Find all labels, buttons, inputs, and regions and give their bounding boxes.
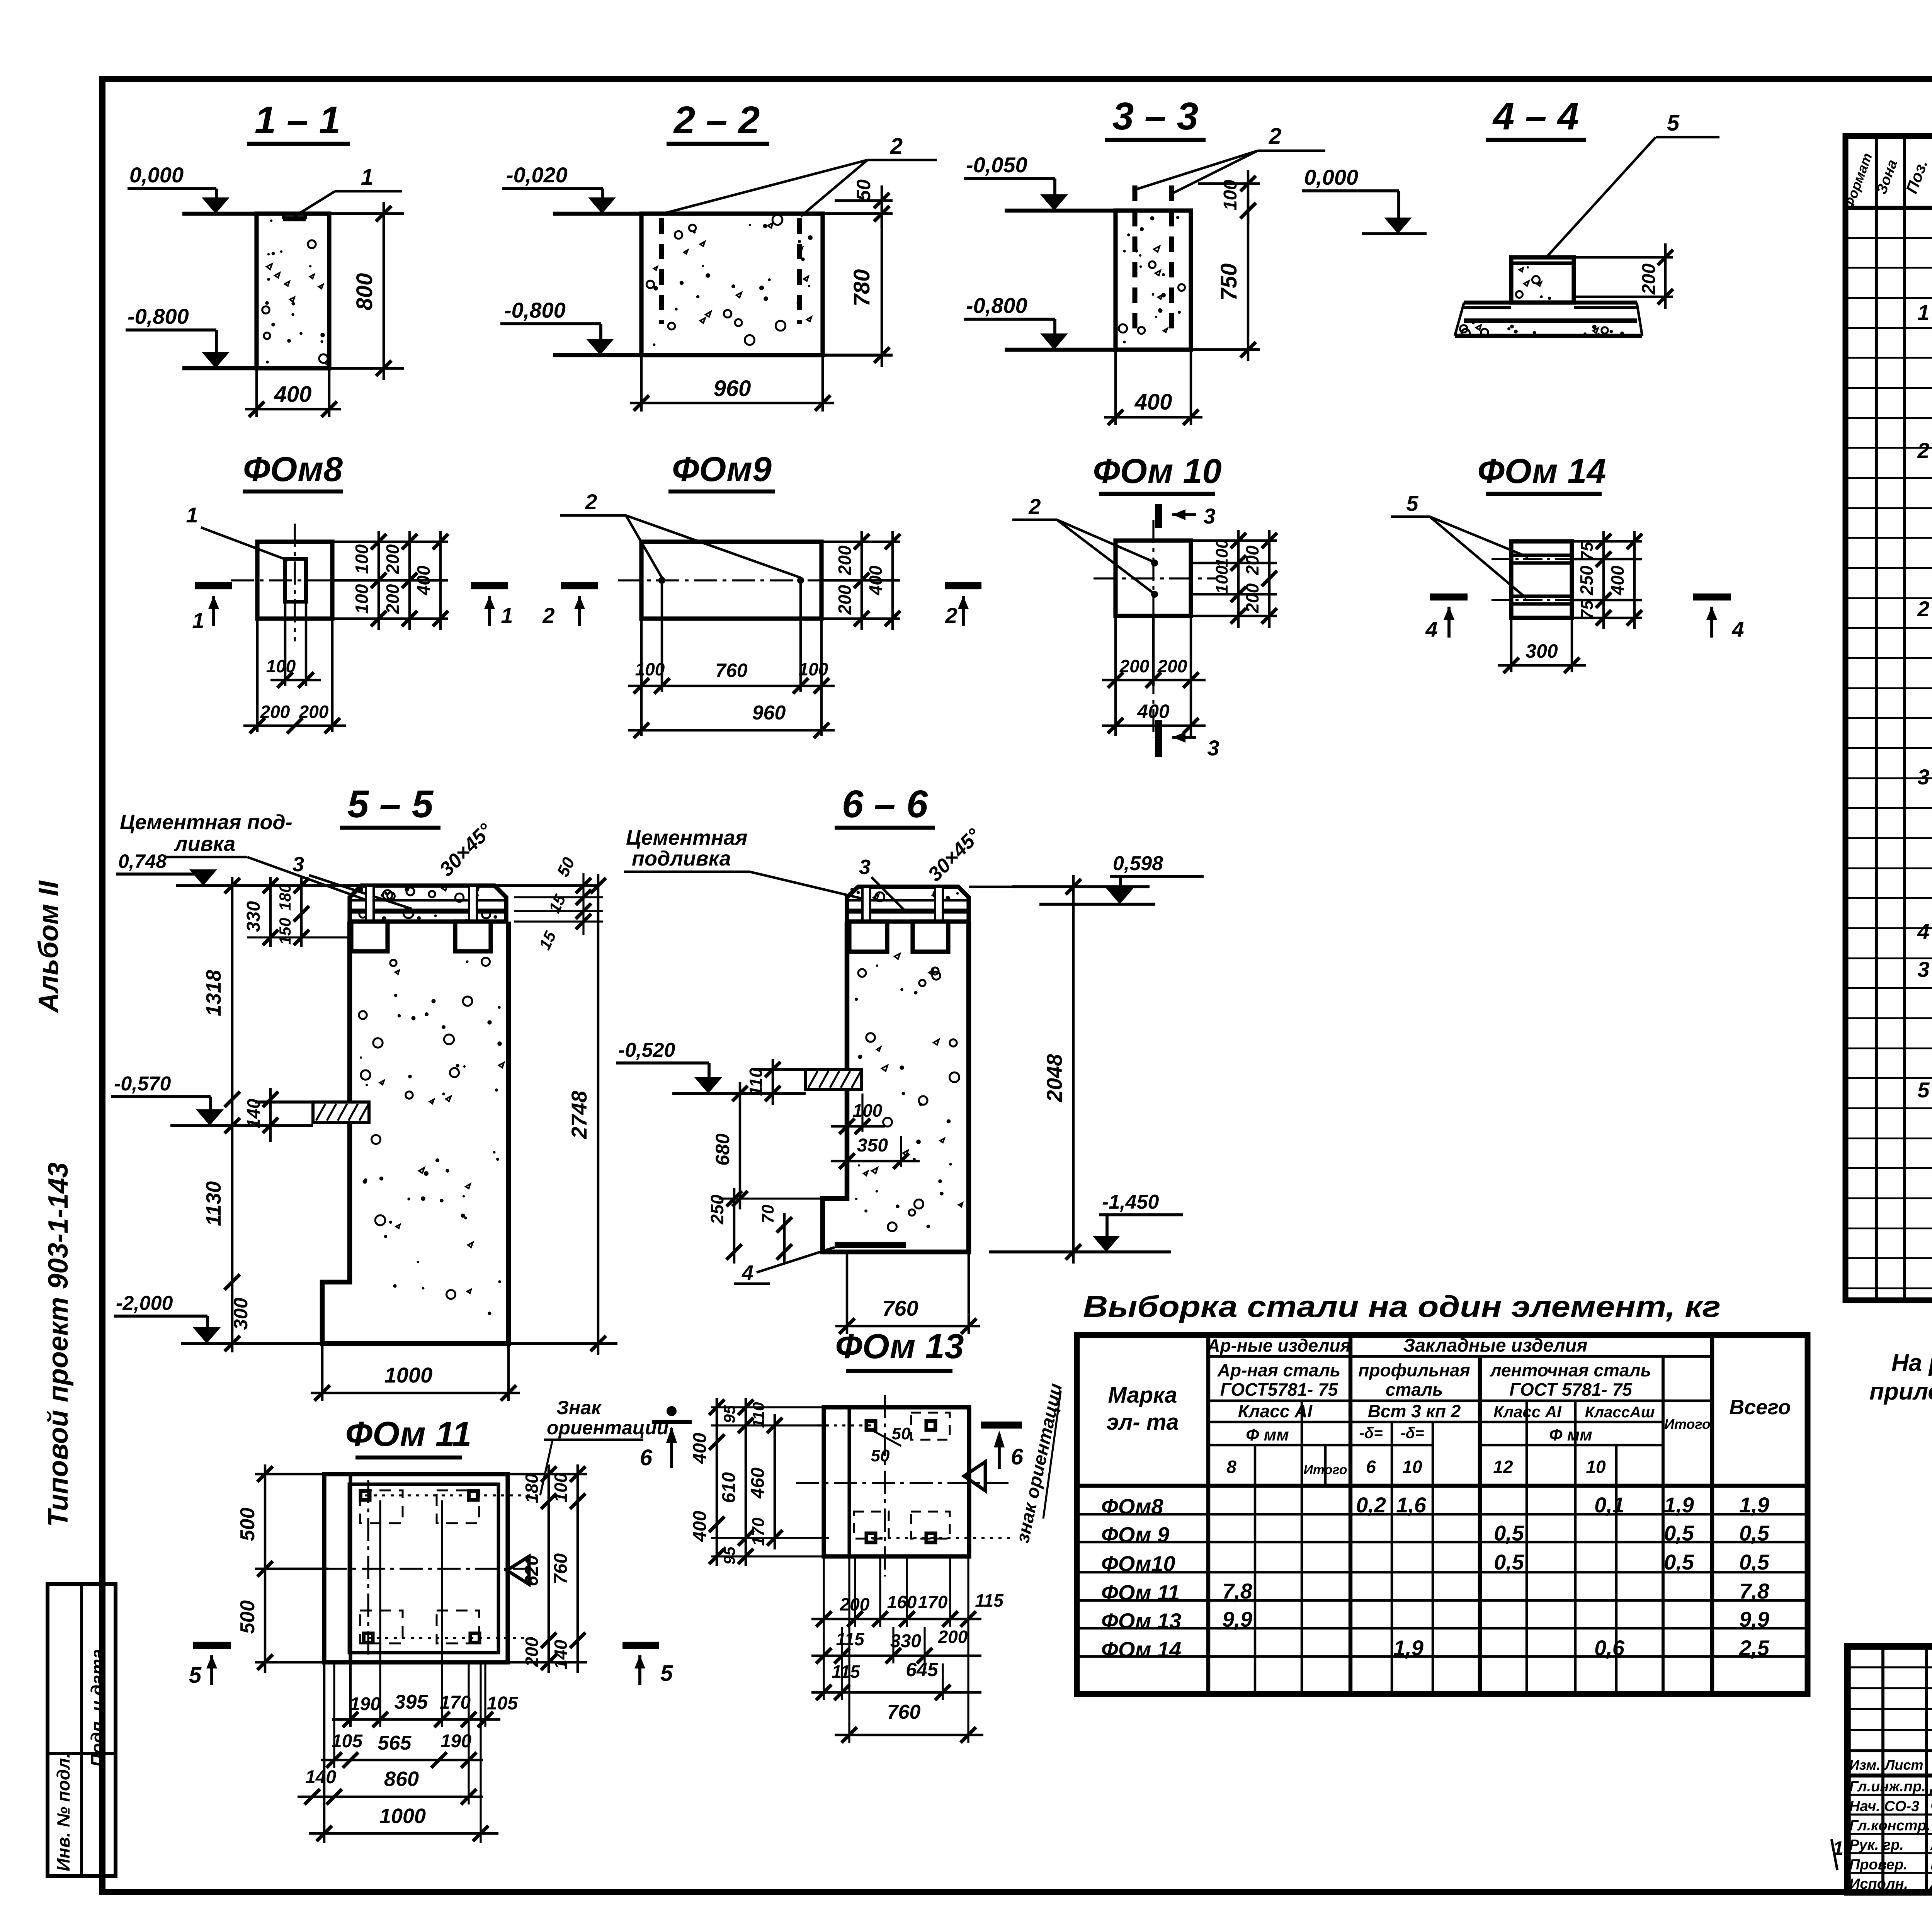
svg-text:9,9: 9,9 xyxy=(1222,1607,1252,1631)
svg-text:150: 150 xyxy=(276,918,294,945)
svg-text:1 – 1: 1 – 1 xyxy=(255,99,340,142)
svg-text:0,5: 0,5 xyxy=(1739,1550,1770,1574)
svg-text:Рук. гр.: Рук. гр. xyxy=(1849,1837,1904,1853)
svg-text:565: 565 xyxy=(378,1732,412,1754)
svg-text:Цементная под-: Цементная под- xyxy=(120,811,293,834)
svg-text:1,9: 1,9 xyxy=(1739,1493,1769,1517)
svg-text:100: 100 xyxy=(352,584,372,614)
svg-text:На разрезах 5-5 и 6-6 показаны: На разрезах 5-5 и 6-6 показаны плиты пер… xyxy=(1891,1350,1932,1376)
svg-text:5: 5 xyxy=(1667,111,1680,136)
svg-text:профильная: профильная xyxy=(1358,1360,1470,1380)
svg-text:-δ=: -δ= xyxy=(1359,1425,1383,1442)
svg-text:Знак: Знак xyxy=(556,1397,602,1418)
svg-text:0,1: 0,1 xyxy=(1594,1493,1624,1517)
svg-text:ГОСТ 5781- 75: ГОСТ 5781- 75 xyxy=(1509,1379,1633,1400)
svg-text:0,2: 0,2 xyxy=(1356,1493,1386,1517)
svg-text:ФОм 14: ФОм 14 xyxy=(1101,1637,1181,1662)
svg-text:200: 200 xyxy=(260,702,290,722)
svg-text:760: 760 xyxy=(715,660,748,681)
svg-text:760: 760 xyxy=(551,1553,571,1584)
svg-text:0,000: 0,000 xyxy=(129,163,184,187)
svg-text:115: 115 xyxy=(975,1590,1004,1611)
svg-text:100: 100 xyxy=(1213,539,1231,568)
svg-text:КлассАш: КлассАш xyxy=(1585,1404,1655,1421)
svg-text:610: 610 xyxy=(719,1472,739,1503)
svg-text:330: 330 xyxy=(243,901,264,932)
svg-text:140: 140 xyxy=(305,1767,336,1787)
svg-text:2: 2 xyxy=(585,490,597,514)
svg-text:800: 800 xyxy=(352,273,377,311)
svg-text:400: 400 xyxy=(1134,389,1172,415)
svg-text:7,8: 7,8 xyxy=(1739,1579,1770,1603)
svg-text:2748: 2748 xyxy=(567,1090,591,1139)
svg-text:300: 300 xyxy=(1526,640,1558,662)
svg-text:3: 3 xyxy=(1207,736,1219,760)
svg-text:Нач. СО-3: Нач. СО-3 xyxy=(1849,1798,1919,1815)
svg-text:-0,050: -0,050 xyxy=(966,153,1027,177)
svg-text:400: 400 xyxy=(866,565,886,595)
svg-text:780: 780 xyxy=(849,269,874,307)
svg-text:110: 110 xyxy=(746,1068,766,1096)
svg-text:180: 180 xyxy=(276,884,294,911)
svg-text:1000: 1000 xyxy=(379,1804,426,1828)
svg-text:Альбом II: Альбом II xyxy=(33,880,64,1013)
svg-text:1000: 1000 xyxy=(384,1363,433,1387)
svg-text:эл- та: эл- та xyxy=(1106,1410,1179,1435)
svg-text:4 – 4: 4 – 4 xyxy=(1492,95,1579,138)
svg-text:500: 500 xyxy=(236,1600,259,1634)
svg-text:ФОм 14: ФОм 14 xyxy=(1477,452,1606,491)
svg-text:50: 50 xyxy=(853,179,874,201)
svg-text:200: 200 xyxy=(299,702,329,722)
svg-text:0,5: 0,5 xyxy=(1664,1550,1694,1574)
svg-text:Изм.: Изм. xyxy=(1849,1757,1880,1773)
svg-text:-2,000: -2,000 xyxy=(116,1292,173,1315)
svg-text:Всего: Всего xyxy=(1729,1396,1791,1419)
svg-text:4: 4 xyxy=(742,1261,753,1284)
svg-text:860: 860 xyxy=(384,1767,419,1791)
svg-text:170: 170 xyxy=(749,1517,768,1546)
svg-text:170: 170 xyxy=(918,1592,948,1612)
svg-text:1: 1 xyxy=(192,608,204,633)
svg-text:-δ=: -δ= xyxy=(1400,1425,1424,1442)
svg-text:4: 4 xyxy=(1425,617,1437,641)
svg-text:ФОм8: ФОм8 xyxy=(243,450,343,489)
svg-text:5: 5 xyxy=(660,1661,673,1686)
svg-text:760: 760 xyxy=(887,1701,921,1723)
svg-text:95: 95 xyxy=(720,1546,738,1565)
svg-text:330: 330 xyxy=(890,1631,921,1651)
svg-text:100: 100 xyxy=(551,1473,571,1502)
svg-text:75: 75 xyxy=(1578,542,1597,561)
svg-text:Трейс: Трейс xyxy=(1930,1814,1932,1834)
svg-text:95: 95 xyxy=(720,1405,738,1423)
svg-text:-0,020: -0,020 xyxy=(506,163,568,187)
svg-text:прилегающих подпольных канал: прилегающих подпольных каналов. xyxy=(1869,1378,1932,1405)
svg-text:10: 10 xyxy=(1586,1457,1606,1477)
svg-text:1: 1 xyxy=(501,603,513,628)
svg-text:200: 200 xyxy=(938,1627,968,1647)
svg-text:190: 190 xyxy=(350,1694,381,1714)
svg-text:70: 70 xyxy=(759,1204,777,1223)
svg-text:3: 3 xyxy=(293,853,304,876)
svg-text:1: 1 xyxy=(1917,300,1929,325)
svg-text:100: 100 xyxy=(352,544,372,574)
svg-text:Цементная: Цементная xyxy=(626,826,747,849)
svg-text:0,5: 0,5 xyxy=(1739,1521,1770,1545)
svg-text:ФОм 9: ФОм 9 xyxy=(1101,1522,1169,1547)
svg-text:4: 4 xyxy=(1917,919,1929,944)
svg-text:1130: 1130 xyxy=(202,1181,225,1226)
svg-text:115: 115 xyxy=(836,1629,865,1649)
svg-text:5: 5 xyxy=(1917,1078,1930,1102)
svg-text:960: 960 xyxy=(714,376,751,401)
svg-text:2: 2 xyxy=(945,603,957,628)
svg-text:2 – 2: 2 – 2 xyxy=(673,99,760,142)
svg-text:8: 8 xyxy=(1226,1457,1236,1477)
svg-text:-0,520: -0,520 xyxy=(618,1039,675,1061)
svg-text:ФОм 11: ФОм 11 xyxy=(345,1415,471,1454)
svg-text:250: 250 xyxy=(1577,565,1597,595)
svg-text:Итого: Итого xyxy=(1664,1416,1711,1432)
svg-text:3: 3 xyxy=(859,855,871,879)
svg-text:400: 400 xyxy=(274,382,312,407)
svg-text:6: 6 xyxy=(640,1445,653,1470)
svg-text:6: 6 xyxy=(1366,1457,1376,1477)
svg-text:ливка: ливка xyxy=(173,832,235,855)
svg-text:250: 250 xyxy=(707,1194,727,1225)
svg-text:500: 500 xyxy=(236,1508,259,1541)
svg-text:1,6: 1,6 xyxy=(1396,1493,1427,1517)
svg-text:1: 1 xyxy=(186,503,198,527)
svg-text:140: 140 xyxy=(243,1099,264,1128)
svg-text:Вст 3 кп 2: Вст 3 кп 2 xyxy=(1368,1401,1461,1421)
svg-text:750: 750 xyxy=(1216,264,1242,301)
svg-text:200: 200 xyxy=(1639,264,1659,295)
svg-text:200: 200 xyxy=(383,584,403,614)
svg-text:7,8: 7,8 xyxy=(1222,1579,1253,1603)
svg-text:200: 200 xyxy=(835,545,855,575)
svg-text:Типовой проект 903-1-143: Типовой проект 903-1-143 xyxy=(43,1162,74,1527)
svg-text:-0,800: -0,800 xyxy=(504,298,566,322)
svg-text:400: 400 xyxy=(690,1433,710,1464)
svg-text:Инв. № подл.: Инв. № подл. xyxy=(53,1753,73,1871)
svg-text:Гл.инж.пр.: Гл.инж.пр. xyxy=(1849,1779,1926,1795)
svg-text:10: 10 xyxy=(1402,1457,1422,1477)
svg-text:Класс АI: Класс АI xyxy=(1238,1401,1313,1421)
svg-text:200: 200 xyxy=(840,1594,870,1614)
svg-text:3 – 3: 3 – 3 xyxy=(1112,95,1198,138)
svg-text:2,5: 2,5 xyxy=(1739,1636,1770,1660)
svg-text:105: 105 xyxy=(487,1693,518,1714)
svg-text:1318: 1318 xyxy=(202,970,225,1016)
svg-text:Лист: Лист xyxy=(1884,1757,1923,1773)
svg-text:ФОм 10: ФОм 10 xyxy=(1093,452,1221,491)
svg-text:645: 645 xyxy=(906,1659,939,1680)
svg-text:200: 200 xyxy=(522,1637,542,1667)
svg-text:Ар-ные изделия: Ар-ные изделия xyxy=(1207,1335,1350,1355)
svg-text:190: 190 xyxy=(440,1731,471,1752)
svg-text:ленточная сталь: ленточная сталь xyxy=(1490,1360,1651,1380)
svg-text:0,748: 0,748 xyxy=(118,850,167,872)
svg-text:200: 200 xyxy=(1242,545,1262,575)
svg-text:Итого: Итого xyxy=(1303,1463,1347,1477)
svg-text:Выборка стали на один элемент: Выборка стали на один элемент, кг xyxy=(1083,1289,1721,1323)
svg-text:-0,800: -0,800 xyxy=(128,304,189,328)
svg-text:0,6: 0,6 xyxy=(1594,1636,1625,1660)
svg-text:620: 620 xyxy=(522,1555,542,1586)
svg-text:ФОм 11: ФОм 11 xyxy=(1101,1580,1180,1605)
svg-text:200: 200 xyxy=(835,585,855,615)
svg-text:3: 3 xyxy=(1917,765,1929,789)
svg-text:Подп. и дата: Подп. и дата xyxy=(87,1649,107,1767)
svg-text:6 – 6: 6 – 6 xyxy=(842,782,929,826)
svg-text:Ф мм: Ф мм xyxy=(1549,1425,1592,1444)
svg-text:50: 50 xyxy=(871,1446,890,1465)
svg-text:9,9: 9,9 xyxy=(1739,1607,1769,1631)
svg-text:ФОм8: ФОм8 xyxy=(1101,1494,1163,1519)
svg-text:2: 2 xyxy=(1917,597,1929,621)
svg-text:ФОм 13: ФОм 13 xyxy=(1101,1609,1181,1633)
svg-text:Исполн.: Исполн. xyxy=(1849,1876,1908,1892)
svg-text:3: 3 xyxy=(1203,504,1215,528)
svg-text:Ар-ная сталь: Ар-ная сталь xyxy=(1217,1360,1340,1380)
svg-text:2: 2 xyxy=(1028,494,1041,519)
svg-text:200: 200 xyxy=(383,544,403,574)
svg-text:760: 760 xyxy=(882,1296,918,1320)
svg-text:-0,800: -0,800 xyxy=(966,293,1027,318)
svg-text:100: 100 xyxy=(266,656,296,676)
svg-text:Гл.констр.: Гл.констр. xyxy=(1849,1818,1930,1834)
svg-text:75: 75 xyxy=(1578,600,1597,619)
svg-text:110: 110 xyxy=(749,1402,767,1428)
svg-text:1,9: 1,9 xyxy=(1664,1493,1694,1517)
svg-text:6: 6 xyxy=(1011,1444,1024,1469)
svg-text:400: 400 xyxy=(1137,701,1170,722)
svg-text:1,9: 1,9 xyxy=(1393,1636,1423,1660)
svg-text:5: 5 xyxy=(1406,491,1418,515)
svg-text:200: 200 xyxy=(1157,656,1187,676)
svg-text:350: 350 xyxy=(857,1135,888,1156)
svg-text:2: 2 xyxy=(1917,438,1929,463)
svg-text:2: 2 xyxy=(890,134,903,159)
svg-text:подливка: подливка xyxy=(632,847,731,870)
svg-text:395: 395 xyxy=(395,1691,429,1713)
svg-text:0,5: 0,5 xyxy=(1664,1521,1694,1545)
svg-text:0,5: 0,5 xyxy=(1494,1521,1524,1545)
svg-text:460: 460 xyxy=(748,1468,768,1499)
svg-text:100: 100 xyxy=(1220,180,1241,211)
svg-text:Второв: Второв xyxy=(1930,1853,1932,1873)
svg-text:2048: 2048 xyxy=(1042,1054,1066,1102)
svg-text:1: 1 xyxy=(361,165,373,190)
svg-text:0,5: 0,5 xyxy=(1494,1550,1524,1574)
svg-text:180: 180 xyxy=(522,1473,542,1503)
svg-text:2: 2 xyxy=(1269,124,1281,149)
svg-text:Апсе: Апсе xyxy=(1930,1833,1932,1854)
svg-text:400: 400 xyxy=(413,565,434,595)
svg-text:-1,450: -1,450 xyxy=(1102,1191,1159,1213)
svg-text:Провер.: Провер. xyxy=(1849,1857,1908,1873)
svg-text:ГОСТ5781- 75: ГОСТ5781- 75 xyxy=(1220,1379,1338,1400)
svg-text:-0,570: -0,570 xyxy=(114,1073,171,1095)
svg-text:105: 105 xyxy=(332,1731,363,1752)
svg-text:400: 400 xyxy=(1607,565,1628,595)
svg-text:160: 160 xyxy=(887,1592,917,1612)
svg-text:Марка: Марка xyxy=(1108,1383,1177,1408)
svg-text:200: 200 xyxy=(1119,656,1150,676)
svg-text:5 – 5: 5 – 5 xyxy=(347,782,434,826)
svg-text:сталь: сталь xyxy=(1386,1379,1443,1400)
svg-text:170: 170 xyxy=(440,1692,471,1713)
svg-text:100: 100 xyxy=(1213,565,1231,594)
svg-text:3: 3 xyxy=(1917,957,1929,981)
svg-text:4: 4 xyxy=(1731,617,1744,641)
svg-text:Олешко: Олешко xyxy=(1930,1795,1932,1815)
svg-text:12: 12 xyxy=(1493,1457,1513,1477)
svg-text:100: 100 xyxy=(799,659,828,679)
svg-text:5: 5 xyxy=(189,1663,202,1688)
svg-text:Класс АI: Класс АI xyxy=(1493,1403,1562,1421)
svg-text:0,000: 0,000 xyxy=(1304,165,1358,189)
svg-text:Ф мм: Ф мм xyxy=(1246,1425,1289,1444)
svg-text:300: 300 xyxy=(230,1298,252,1330)
svg-text:200: 200 xyxy=(1242,583,1262,613)
svg-text:140: 140 xyxy=(551,1639,571,1669)
svg-text:ориентации: ориентации xyxy=(547,1417,668,1439)
svg-text:2: 2 xyxy=(542,603,554,628)
svg-text:ФОм10: ФОм10 xyxy=(1101,1551,1175,1576)
svg-text:ФОм 13: ФОм 13 xyxy=(835,1327,964,1366)
svg-text:50: 50 xyxy=(892,1424,911,1443)
svg-text:0,598: 0,598 xyxy=(1113,852,1163,875)
svg-text:Закладные изделия: Закладные изделия xyxy=(1403,1335,1588,1356)
svg-text:680: 680 xyxy=(712,1133,733,1166)
svg-text:100: 100 xyxy=(635,659,665,679)
svg-text:400: 400 xyxy=(690,1511,710,1542)
svg-text:100: 100 xyxy=(853,1100,883,1121)
svg-text:115: 115 xyxy=(832,1662,861,1682)
svg-text:960: 960 xyxy=(752,702,786,724)
svg-text:ФОм9: ФОм9 xyxy=(672,450,772,489)
